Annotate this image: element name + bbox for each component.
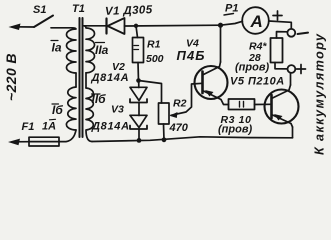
svg-text:Iа: Iа bbox=[52, 41, 62, 55]
plus sign at terminal bbox=[297, 65, 306, 74]
label I6 bbox=[52, 103, 63, 117]
svg-text:IIа: IIа bbox=[95, 43, 109, 57]
zener V3 D814A bbox=[130, 115, 147, 129]
label II6 bbox=[92, 92, 107, 106]
transistor V5 P210A bbox=[265, 85, 299, 127]
transformer secondary winding II6 bbox=[86, 88, 93, 142]
wire zener junction to R2 top bbox=[139, 81, 162, 104]
svg-text:Д814А: Д814А bbox=[91, 72, 130, 84]
svg-text:500: 500 bbox=[146, 53, 164, 65]
svg-text:R1: R1 bbox=[147, 39, 161, 51]
svg-text:R4*: R4* bbox=[249, 41, 267, 53]
transformer secondary straight section bbox=[85, 73, 87, 88]
resistor R2 (variable) bbox=[159, 103, 170, 124]
wire ammeter to minus terminal bbox=[269, 21, 292, 29]
svg-text:T1: T1 bbox=[72, 3, 85, 15]
svg-text:(пров): (пров) bbox=[218, 124, 252, 136]
node junction R1 bbox=[134, 24, 138, 28]
terminal minus bbox=[287, 29, 295, 37]
svg-text:Д814А: Д814А bbox=[91, 121, 130, 133]
wire R1 to junction dot bbox=[137, 63, 140, 82]
label IIa bbox=[95, 43, 109, 58]
svg-text:V3: V3 bbox=[111, 104, 124, 116]
svg-text:К аккумулятору: К аккумулятору bbox=[313, 33, 327, 155]
wire to ammeter bbox=[221, 21, 243, 25]
wire top rail to R1 bbox=[136, 26, 138, 38]
node junction V3 bottom bbox=[137, 138, 142, 143]
wire V2 to V3 bbox=[138, 103, 140, 116]
wire switch to transformer primary top bbox=[51, 27, 72, 29]
svg-text:470: 470 bbox=[169, 122, 189, 134]
switch S1 bbox=[9, 16, 54, 31]
wire R3 to V5 base bbox=[255, 103, 272, 105]
node junction V4 collector bbox=[218, 23, 223, 28]
diode V1 D305 bbox=[107, 18, 125, 34]
svg-text:Iб: Iб bbox=[52, 103, 63, 117]
wire R4 top to minus terminal bbox=[277, 32, 288, 38]
transformer T1 core bbox=[79, 18, 81, 137]
transformer secondary winding IIa bbox=[84, 26, 95, 73]
bottom rail wire bbox=[92, 137, 293, 142]
wire V5 emitter to bottom rail bbox=[292, 127, 294, 138]
node junction zener top bbox=[136, 78, 141, 83]
fuse F1 bbox=[8, 130, 76, 146]
svg-text:(пров): (пров) bbox=[235, 62, 269, 74]
wire R2 bottom to rail bbox=[163, 124, 166, 140]
label P1 bbox=[224, 3, 238, 16]
resistor R4 bbox=[271, 38, 283, 63]
ammeter P1 bbox=[242, 7, 269, 34]
wire V5 collector to plus terminal bbox=[290, 73, 292, 85]
transformer primary winding Ia bbox=[67, 28, 77, 73]
svg-text:P1: P1 bbox=[225, 3, 238, 15]
svg-text:R2: R2 bbox=[173, 98, 187, 110]
transistor V4 P4B bbox=[195, 62, 229, 105]
label Ia bbox=[51, 41, 62, 55]
label 1A bbox=[42, 119, 56, 132]
svg-text:S1: S1 bbox=[33, 4, 46, 16]
R2 wiper wire to V4 base bbox=[170, 83, 203, 118]
svg-text:V1 Д305: V1 Д305 bbox=[105, 4, 153, 18]
transformer primary winding I6 bbox=[66, 87, 76, 130]
svg-text:А: А bbox=[250, 12, 263, 31]
resistor R3 bbox=[229, 99, 255, 110]
zener V2 D814A bbox=[130, 81, 147, 103]
svg-text:1А: 1А bbox=[42, 121, 56, 133]
svg-text:П4Б: П4Б bbox=[177, 48, 206, 63]
svg-text:~220 В: ~220 В bbox=[3, 53, 19, 101]
wire R4 bottom to plus terminal bbox=[275, 63, 287, 69]
minus sign bbox=[298, 33, 309, 34]
wire top rail diode to V4 junction bbox=[125, 24, 221, 27]
svg-text:V5 П210А: V5 П210А bbox=[230, 76, 285, 88]
wire V4 collector to top rail bbox=[220, 25, 222, 62]
transformer primary straight section bbox=[75, 73, 77, 87]
resistor R1 bbox=[133, 38, 144, 63]
terminal plus bbox=[288, 65, 296, 73]
wire V3 to bottom rail bbox=[138, 129, 140, 141]
svg-text:F1: F1 bbox=[22, 121, 35, 133]
node junction R2 bottom bbox=[162, 137, 167, 142]
plus sign near ammeter bbox=[273, 11, 282, 20]
wire secondary top to diode bbox=[84, 25, 107, 27]
